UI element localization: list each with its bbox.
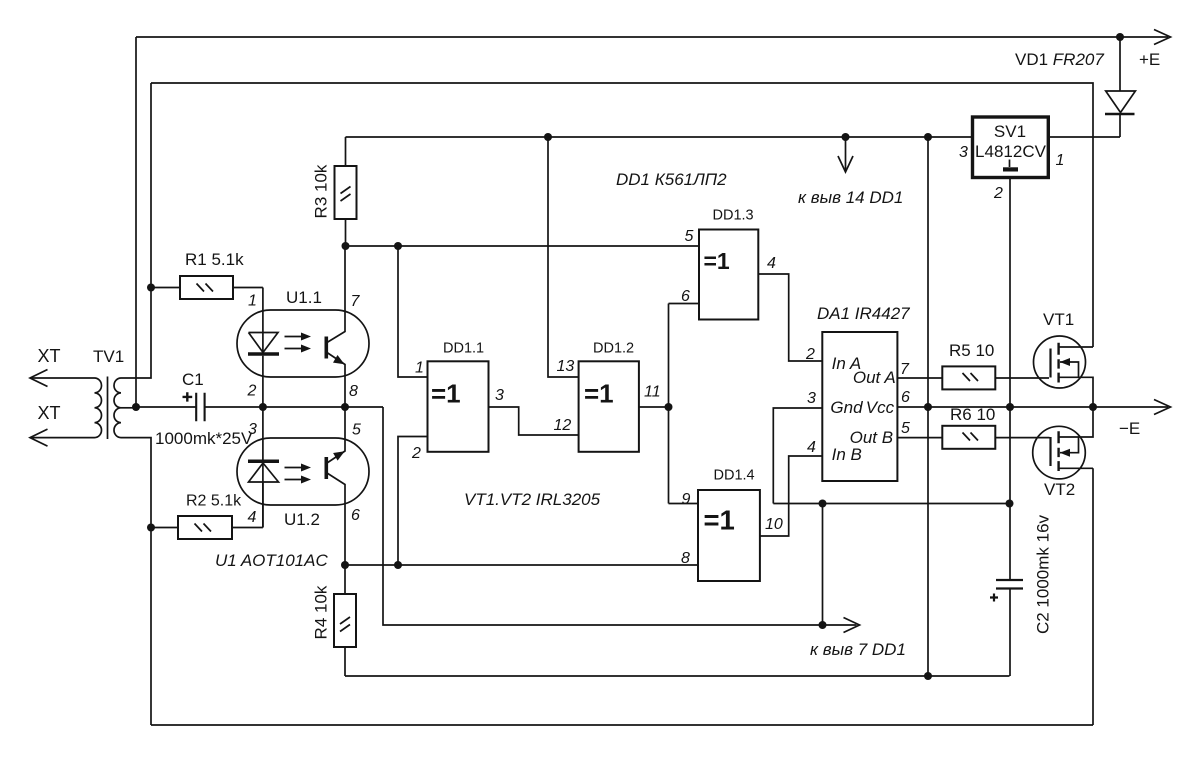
transformer TV1 [93, 347, 136, 439]
transistor VT1 [1034, 310, 1094, 407]
node junction dot x1010 -E [1006, 403, 1014, 411]
node junction dot pin1 drop [394, 242, 402, 250]
wire SV1 pin 1 [1048, 136, 1120, 138]
wire DD1.3 pin 6 [669, 303, 700, 305]
svg-text:C2 1000mk 16v: C2 1000mk 16v [1034, 514, 1053, 634]
svg-text:Out A: Out A [853, 368, 896, 387]
svg-text:+E: +E [1139, 50, 1160, 69]
LED cathode bar [248, 352, 279, 356]
svg-text:2: 2 [993, 185, 1003, 202]
svg-text:VT1.VT2 IRL3205: VT1.VT2 IRL3205 [464, 490, 601, 509]
diode VD1 FR207 [1015, 37, 1135, 137]
svg-text:DD1 К561ЛП2: DD1 К561ЛП2 [616, 170, 727, 189]
wire DA1 Vcc / -E line [897, 406, 1168, 408]
gate bar [1049, 349, 1051, 378]
source lead [1059, 377, 1093, 407]
wire bottom mid rail y676 [345, 675, 1010, 677]
node arrow k vyv 14 DD1 [845, 137, 847, 170]
svg-text:DD1.1: DD1.1 [443, 341, 484, 357]
svg-text:R3 10k: R3 10k [312, 164, 331, 218]
wire riser x668 pin6 to pin9 [668, 304, 670, 504]
drain lead top [1059, 407, 1093, 437]
svg-text:R5 10: R5 10 [949, 341, 994, 360]
svg-text:5: 5 [352, 422, 361, 439]
phototransistor base bar [324, 457, 328, 479]
svg-text:SV1: SV1 [994, 122, 1026, 141]
svg-text:−E: −E [1119, 419, 1140, 438]
node junction dot pin13 top [544, 133, 552, 141]
gate DD1.3 [699, 208, 758, 320]
svg-text:R4 10k: R4 10k [312, 585, 331, 639]
optocoupler U1.1 [237, 245, 369, 407]
node arrow to DD1 pin 7 [844, 618, 860, 633]
node junction dot pin11 [665, 403, 673, 411]
svg-text:In B: In B [832, 445, 862, 464]
node junction dot x1093 -E [1089, 403, 1097, 411]
node junction dot tap [132, 403, 140, 411]
svg-text:12: 12 [554, 417, 572, 434]
svg-text:11: 11 [644, 384, 661, 401]
svg-text:7: 7 [351, 293, 361, 310]
wire +E top rail [136, 36, 1168, 38]
LED cathode bar top [248, 460, 279, 464]
svg-text:XT: XT [38, 346, 61, 366]
svg-text:3: 3 [807, 390, 816, 407]
svg-text:4: 4 [248, 509, 257, 526]
svg-text:к выв 14 DD1: к выв 14 DD1 [798, 188, 903, 207]
light arrow 2 [285, 479, 304, 481]
svg-text:7: 7 [900, 361, 910, 378]
primary winding [95, 378, 102, 438]
node junction dot R2 tap [147, 524, 155, 532]
node +E arrow [1154, 30, 1171, 45]
resistor R1 5.1k [151, 250, 263, 299]
core [107, 377, 109, 440]
svg-text:3: 3 [959, 144, 968, 161]
svg-text:DA1 IR4427: DA1 IR4427 [817, 304, 910, 323]
node -E arrow [1154, 400, 1171, 415]
svg-text:XT: XT [38, 403, 61, 423]
resistor R4 10k [312, 565, 357, 676]
wire R5 to VT1 gate [995, 377, 1049, 379]
svg-text:TV1: TV1 [93, 347, 124, 366]
svg-text:3: 3 [248, 421, 257, 438]
capacitor C2 [990, 514, 1053, 676]
svg-text:5: 5 [685, 228, 694, 245]
wire Vcc riser x928 [927, 137, 929, 676]
svg-text:=1: =1 [704, 505, 735, 536]
svg-text:Vcc: Vcc [866, 398, 895, 417]
svg-text:к выв 7 DD1: к выв 7 DD1 [810, 640, 906, 659]
svg-text:1: 1 [415, 360, 424, 377]
wire second rail to VT1 drain [151, 83, 1093, 347]
gate DD1.4 [698, 468, 760, 582]
svg-text:6: 6 [901, 389, 910, 406]
wire line-246 R3 to DD1.3 pin 5 [346, 245, 700, 247]
node junction dot R1 tap [147, 284, 155, 292]
node junction dot gnd-1009 [1006, 500, 1014, 508]
svg-text:1: 1 [1056, 152, 1065, 169]
wire VT2 source drop [1092, 468, 1094, 725]
svg-text:3: 3 [495, 387, 504, 404]
wire bottom rail [151, 724, 1093, 726]
gate DD1.1 [428, 341, 489, 452]
wire U1.2 pin4 riser [262, 482, 264, 528]
svg-text:C1: C1 [182, 370, 204, 389]
light arrow 1 [285, 467, 304, 469]
svg-text:2: 2 [247, 383, 257, 400]
resistor R5 10 [942, 341, 995, 389]
svg-text:=1: =1 [704, 248, 730, 274]
node junction dot line565-345 [341, 561, 349, 569]
svg-text:U1.2: U1.2 [284, 510, 320, 529]
svg-text:=1: =1 [584, 379, 614, 409]
svg-text:DD1.2: DD1.2 [593, 341, 634, 357]
wire left drop from +E rail to transformer tap [135, 37, 137, 407]
LED triangle [249, 463, 279, 482]
svg-text:VT1: VT1 [1043, 310, 1074, 329]
emitter with arrow [327, 353, 345, 408]
secondary winding [114, 378, 121, 438]
collector [327, 245, 345, 343]
node junction dot k vyv 7 [819, 621, 827, 629]
node junction dot x928 bottom [924, 672, 932, 680]
wire XT top lead [30, 377, 95, 379]
svg-text:VT2: VT2 [1044, 480, 1075, 499]
resistor R2 5.1k [151, 493, 263, 540]
svg-text:10: 10 [765, 516, 783, 533]
svg-text:2: 2 [805, 346, 815, 363]
node junction dot R3 bottom [342, 242, 350, 250]
channel dashes [1057, 431, 1059, 471]
svg-text:6: 6 [351, 507, 360, 524]
svg-text:9: 9 [682, 491, 691, 508]
wire midpoint leg to DD1 pin 7 arrow line [383, 407, 857, 625]
svg-text:DD1.3: DD1.3 [713, 208, 754, 224]
svg-text:5: 5 [901, 420, 910, 437]
svg-text:R1 5.1k: R1 5.1k [185, 250, 244, 269]
collector (down) [327, 473, 345, 565]
wire k vyv 7 leg [822, 504, 824, 626]
wire DD1.1 pin 3 to DD1.2 pin 12 [489, 407, 579, 435]
svg-text:U1.1: U1.1 [286, 288, 322, 307]
wire DA1 Out A [897, 377, 942, 379]
node junction dot x928 -E [924, 403, 932, 411]
resistor R6 10 [942, 405, 995, 449]
channel dashes [1057, 343, 1059, 383]
node junction dot gnd-822 [819, 500, 827, 508]
optocoupler U1.2 [237, 407, 369, 565]
wire SV1 pin 2 riser [1009, 178, 1011, 580]
wire center tap line [136, 406, 383, 408]
svg-text:4: 4 [807, 439, 816, 456]
wire secondary bottom lead drop [121, 438, 151, 725]
wire secondary top lead riser [121, 83, 151, 378]
body tap with arrow [1060, 362, 1079, 377]
svg-text:R6 10: R6 10 [950, 405, 995, 424]
svg-text:Gnd: Gnd [830, 398, 863, 417]
node XT bottom arrowhead [30, 429, 48, 446]
gate bar [1049, 437, 1051, 466]
svg-text:R2 5.1k: R2 5.1k [186, 493, 242, 510]
svg-text:4: 4 [767, 255, 776, 272]
emitter with arrow (up) [327, 407, 345, 463]
source lead bottom [1059, 467, 1093, 469]
wire DD1.2 pin 13 riser [548, 137, 579, 377]
svg-text:U1 AOT101AC: U1 AOT101AC [215, 551, 328, 570]
wire XT bottom lead [30, 437, 95, 439]
wire line-565 to DD1.4 pin 8 [345, 564, 698, 566]
gate DD1.2 [579, 341, 639, 452]
wire DA1 Out B [897, 437, 942, 439]
driver DA1 IR4427 [817, 304, 910, 481]
phototransistor base bar [324, 337, 328, 359]
svg-text:8: 8 [349, 383, 358, 400]
svg-text:DD1.4: DD1.4 [714, 468, 755, 484]
svg-text:1000mk*25V: 1000mk*25V [155, 429, 253, 448]
svg-text:=1: =1 [431, 379, 461, 409]
svg-text:2: 2 [411, 445, 421, 462]
regulator SV1 L4812CV [973, 117, 1049, 178]
svg-text:VD1 FR207: VD1 FR207 [1015, 50, 1104, 69]
resistor R3 10k [312, 137, 357, 246]
wire DD1.4 pin 9 [669, 503, 699, 505]
transistor VT2 [1033, 407, 1093, 499]
wire DD1.3 pin 4 to DA1 In A [758, 274, 822, 361]
LED anode line [249, 333, 279, 353]
svg-text:6: 6 [681, 288, 690, 305]
svg-text:1: 1 [248, 293, 257, 310]
secondary center tap [121, 407, 136, 409]
node junction dot pin2 bottom [394, 561, 402, 569]
wire DA1 Gnd leg [773, 408, 1009, 504]
node junction dot x928 top [924, 133, 932, 141]
node junction dot center-345 [341, 403, 349, 411]
node junction dot center-262 [259, 403, 267, 411]
wire DD1.4 pin 10 to DA1 In B [760, 456, 822, 536]
drain lead [1059, 346, 1093, 348]
node junction dot VD1 top [1116, 33, 1124, 41]
svg-text:13: 13 [557, 358, 575, 375]
svg-text:8: 8 [681, 550, 690, 567]
wire R6 to VT2 gate [995, 437, 1049, 439]
wire DD1.1 pin 1 [398, 246, 428, 377]
wire DD1.1 pin 2 [398, 437, 428, 566]
node XT top arrowhead [30, 370, 48, 387]
light arrow 2 [285, 348, 304, 350]
capacitor C1 [155, 370, 253, 448]
body tap with arrow [1060, 437, 1079, 453]
wire DD1.2 pin 11 [639, 406, 669, 408]
svg-text:L4812CV: L4812CV [975, 142, 1047, 161]
wire U1.1 pin1 drop [262, 288, 264, 354]
light arrow 1 [285, 336, 304, 338]
wire mid supply rail y137 [346, 136, 973, 138]
